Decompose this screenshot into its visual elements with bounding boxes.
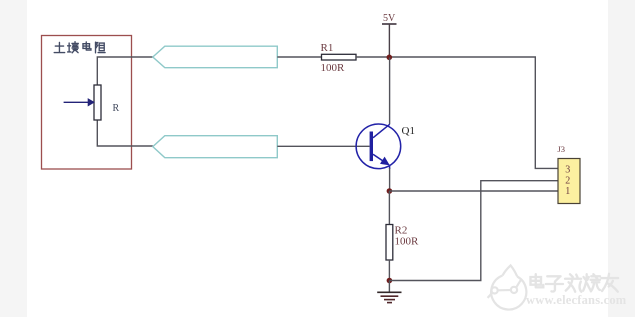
- resistor R2 body: [386, 225, 393, 261]
- watermark logo elecfans: [488, 265, 527, 309]
- 土: [54, 42, 64, 52]
- wire: R2 to ground node: [388, 260, 390, 281]
- label 土壤电阻 (drawn glyph strokes): [54, 42, 105, 53]
- wire: emitter node to J3 pin1: [389, 190, 558, 192]
- probe electrode 1: [153, 46, 277, 67]
- svg-text:100R: 100R: [395, 236, 420, 248]
- svg-text:www.elecfans.com: www.elecfans.com: [526, 293, 627, 307]
- svg-text:R1: R1: [321, 42, 334, 54]
- junction node ground: [387, 278, 393, 284]
- svg-text:3: 3: [565, 165, 570, 176]
- wire: bottom of R to probe 2: [97, 120, 153, 146]
- svg-text:J3: J3: [558, 144, 566, 154]
- wire: emitter down to node: [389, 168, 391, 191]
- wire: probe2 to base: [277, 145, 369, 147]
- 子: [546, 276, 563, 291]
- potentiometer wiper arrow: [64, 99, 95, 106]
- connector J3 body: [558, 159, 580, 204]
- transistor Q1: [356, 124, 401, 169]
- 烧: [583, 274, 600, 291]
- wire: emitter node down to R2: [388, 191, 390, 225]
- wire: collector drop from VCC node: [389, 58, 391, 125]
- svg-text:1: 1: [565, 186, 570, 197]
- junction node emitter: [387, 188, 393, 194]
- svg-text:5V: 5V: [383, 13, 396, 24]
- 发: [565, 274, 581, 292]
- 阻: [96, 42, 106, 53]
- potentiometer R body: [94, 85, 101, 120]
- wire: ground node right and up to J3 pin2: [389, 181, 558, 281]
- 电: [83, 42, 91, 50]
- 电: [531, 274, 544, 287]
- wire: top of R to probe 1: [97, 57, 153, 85]
- 壤: [68, 42, 79, 53]
- svg-text:R: R: [113, 103, 120, 114]
- soil resistance sheet box 土壤电阻: [42, 36, 132, 170]
- svg-text:Q1: Q1: [402, 125, 415, 137]
- power 5V bar: [382, 24, 397, 58]
- watermark text 电子发烧友 (drawn glyph strokes): [531, 274, 619, 292]
- probe electrode 2: [153, 136, 277, 158]
- svg-text:100R: 100R: [321, 62, 346, 74]
- ground: [377, 281, 401, 303]
- 友: [601, 274, 618, 292]
- resistor R1 body: [322, 54, 357, 60]
- wire: R1 to corner via VCC node: [356, 57, 558, 168]
- svg-text:2: 2: [565, 176, 570, 187]
- junction node VCC: [387, 55, 393, 61]
- wire: probe1 to R1: [277, 56, 321, 58]
